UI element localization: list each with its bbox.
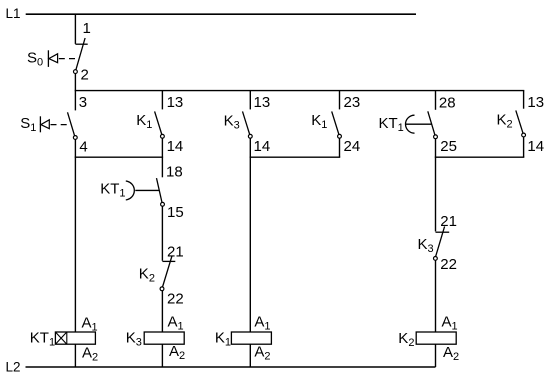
wire L1 to S0 bbox=[74, 14, 76, 44]
wire coil K2 to L2 bbox=[435, 344, 437, 367]
svg-text:A2: A2 bbox=[254, 344, 270, 363]
svg-text:22: 22 bbox=[440, 256, 457, 273]
svg-text:A2: A2 bbox=[443, 344, 459, 363]
wire S1 down column A to coil KT1 bbox=[74, 139, 76, 332]
svg-text:K2: K2 bbox=[398, 330, 414, 349]
svg-text:1: 1 bbox=[83, 20, 91, 37]
S0 actuator (pushbutton head) bbox=[48, 50, 78, 67]
wire bus2 to KT1 contact 28 bbox=[435, 91, 437, 110]
svg-text:A2: A2 bbox=[82, 344, 98, 363]
svg-text:KT1: KT1 bbox=[379, 115, 404, 134]
svg-text:A1: A1 bbox=[442, 313, 458, 332]
wire bus row2 bbox=[75, 90, 525, 92]
wire coil KT1 to L2 bbox=[74, 344, 76, 367]
wire K2 contact to bus row3 bbox=[523, 137, 525, 157]
wire bus row3 segment E-F bbox=[435, 156, 525, 158]
svg-text:3: 3 bbox=[79, 94, 87, 111]
wire S0 to S1 bbox=[74, 74, 76, 111]
S1 actuator (pushbutton head) bbox=[40, 116, 71, 132]
svg-text:A2: A2 bbox=[169, 343, 185, 362]
coil K3 bbox=[144, 332, 184, 344]
svg-text:13: 13 bbox=[254, 94, 271, 111]
svg-text:K3: K3 bbox=[126, 330, 142, 349]
wire bus row3 segment C-D bbox=[250, 156, 341, 158]
wire K1 contact to bus row3 bbox=[339, 138, 341, 157]
wire coil K3 to L2 bbox=[161, 344, 163, 367]
svg-text:K1: K1 bbox=[215, 330, 231, 349]
contact K3 21-22 (NC) bbox=[434, 226, 450, 260]
svg-text:23: 23 bbox=[344, 94, 361, 111]
coil K1 bbox=[231, 332, 271, 344]
contact K1 13-14 (NO) bbox=[155, 111, 165, 138]
wire bus2 to K1 contact 23 bbox=[339, 91, 341, 110]
svg-text:K2: K2 bbox=[139, 266, 155, 285]
wire K3 contact down column C to coil K1 bbox=[249, 138, 251, 332]
svg-text:21: 21 bbox=[440, 213, 457, 230]
wire bus row3 segment A-B bbox=[75, 156, 163, 158]
svg-text:25: 25 bbox=[440, 138, 457, 155]
svg-text:KT1: KT1 bbox=[30, 329, 55, 348]
contact K1 23-24 (NO) bbox=[332, 111, 342, 138]
wire bus2 to K1 contact bbox=[161, 91, 163, 110]
svg-text:14: 14 bbox=[254, 138, 271, 155]
svg-text:KT1: KT1 bbox=[100, 181, 125, 200]
wire K2 contact to coil K3 bbox=[161, 291, 163, 332]
wire bus2 to K2 contact 13 bbox=[523, 91, 525, 109]
pushbutton S0 (NC contact) bbox=[74, 38, 88, 74]
contact K2 13-14 (NO) bbox=[516, 110, 526, 137]
pushbutton S1 (NO contact) bbox=[68, 112, 78, 139]
svg-text:14: 14 bbox=[527, 138, 544, 155]
wire coil K1 to L2 bbox=[249, 344, 251, 367]
coil KT1 (timer relay, box with X) bbox=[55, 332, 95, 344]
contact K3 13-14 (NO) bbox=[243, 111, 253, 138]
svg-text:K3: K3 bbox=[224, 113, 240, 132]
wire K1 contact to KT1 contact bbox=[161, 138, 163, 177]
wire bus2 to K3 contact bbox=[249, 91, 251, 110]
svg-text:15: 15 bbox=[167, 204, 184, 221]
contact K2 21-22 (NC) bbox=[160, 256, 175, 291]
svg-text:K2: K2 bbox=[497, 112, 513, 131]
wire K3 contact to coil K2 bbox=[435, 260, 437, 332]
svg-text:13: 13 bbox=[167, 94, 184, 111]
svg-text:4: 4 bbox=[79, 139, 87, 156]
svg-text:24: 24 bbox=[344, 138, 361, 155]
svg-text:A1: A1 bbox=[82, 315, 98, 334]
svg-text:2: 2 bbox=[81, 66, 89, 83]
svg-text:18: 18 bbox=[166, 163, 183, 180]
svg-text:21: 21 bbox=[167, 243, 184, 260]
wire L1 bus bbox=[26, 13, 416, 15]
svg-text:28: 28 bbox=[439, 95, 456, 112]
wire KT1 contact to K2 contact bbox=[161, 206, 163, 261]
svg-text:A1: A1 bbox=[254, 313, 270, 332]
svg-text:K3: K3 bbox=[418, 236, 434, 255]
svg-text:L2: L2 bbox=[6, 360, 21, 375]
svg-text:K1: K1 bbox=[136, 112, 152, 131]
svg-text:A1: A1 bbox=[168, 313, 184, 332]
contact KT1 28-25 (NO, off-delay) bbox=[406, 111, 438, 138]
svg-text:22: 22 bbox=[167, 291, 184, 308]
coil K2 bbox=[416, 332, 456, 344]
svg-text:S0: S0 bbox=[27, 49, 43, 68]
contact KT1 18-15 (NO, on-delay) bbox=[126, 178, 165, 206]
svg-text:13: 13 bbox=[527, 94, 544, 111]
wire L2 bus bbox=[26, 366, 436, 368]
svg-text:L1: L1 bbox=[6, 6, 21, 21]
svg-text:S1: S1 bbox=[20, 115, 36, 134]
wire KT1 contact down to K3 contact 21 bbox=[435, 139, 437, 232]
svg-text:K1: K1 bbox=[311, 112, 327, 131]
svg-text:14: 14 bbox=[167, 138, 184, 155]
